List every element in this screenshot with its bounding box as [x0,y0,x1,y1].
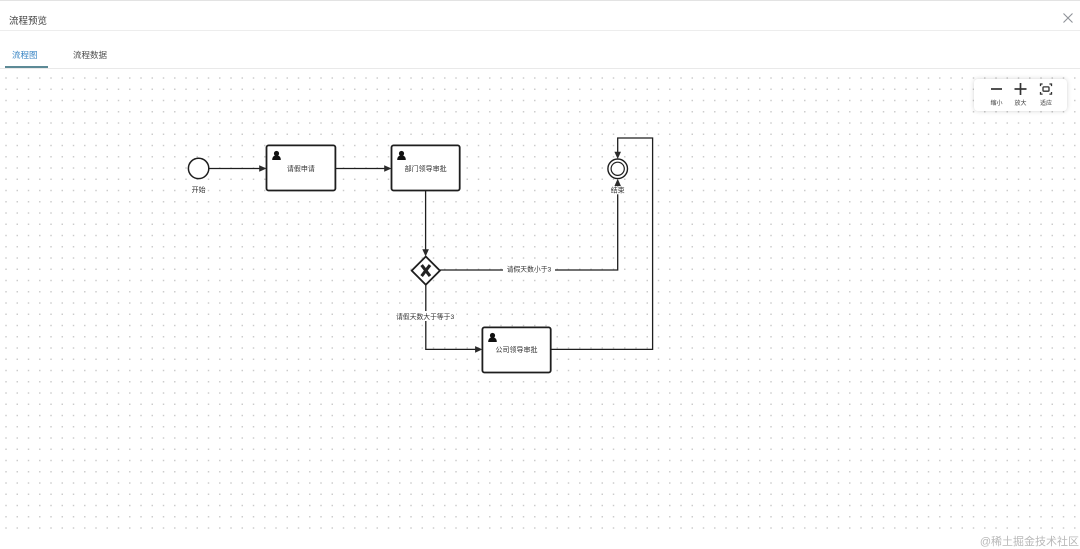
svg-text:部门领导审批: 部门领导审批 [405,164,447,173]
svg-text:公司领导审批: 公司领导审批 [496,345,538,354]
svg-text:开始: 开始 [192,185,206,194]
svg-text:请假天数小于3: 请假天数小于3 [507,264,552,273]
svg-text:请假天数大于等于3: 请假天数大于等于3 [396,312,454,321]
svg-text:结束: 结束 [611,186,625,195]
svg-text:请假申请: 请假申请 [287,164,315,173]
